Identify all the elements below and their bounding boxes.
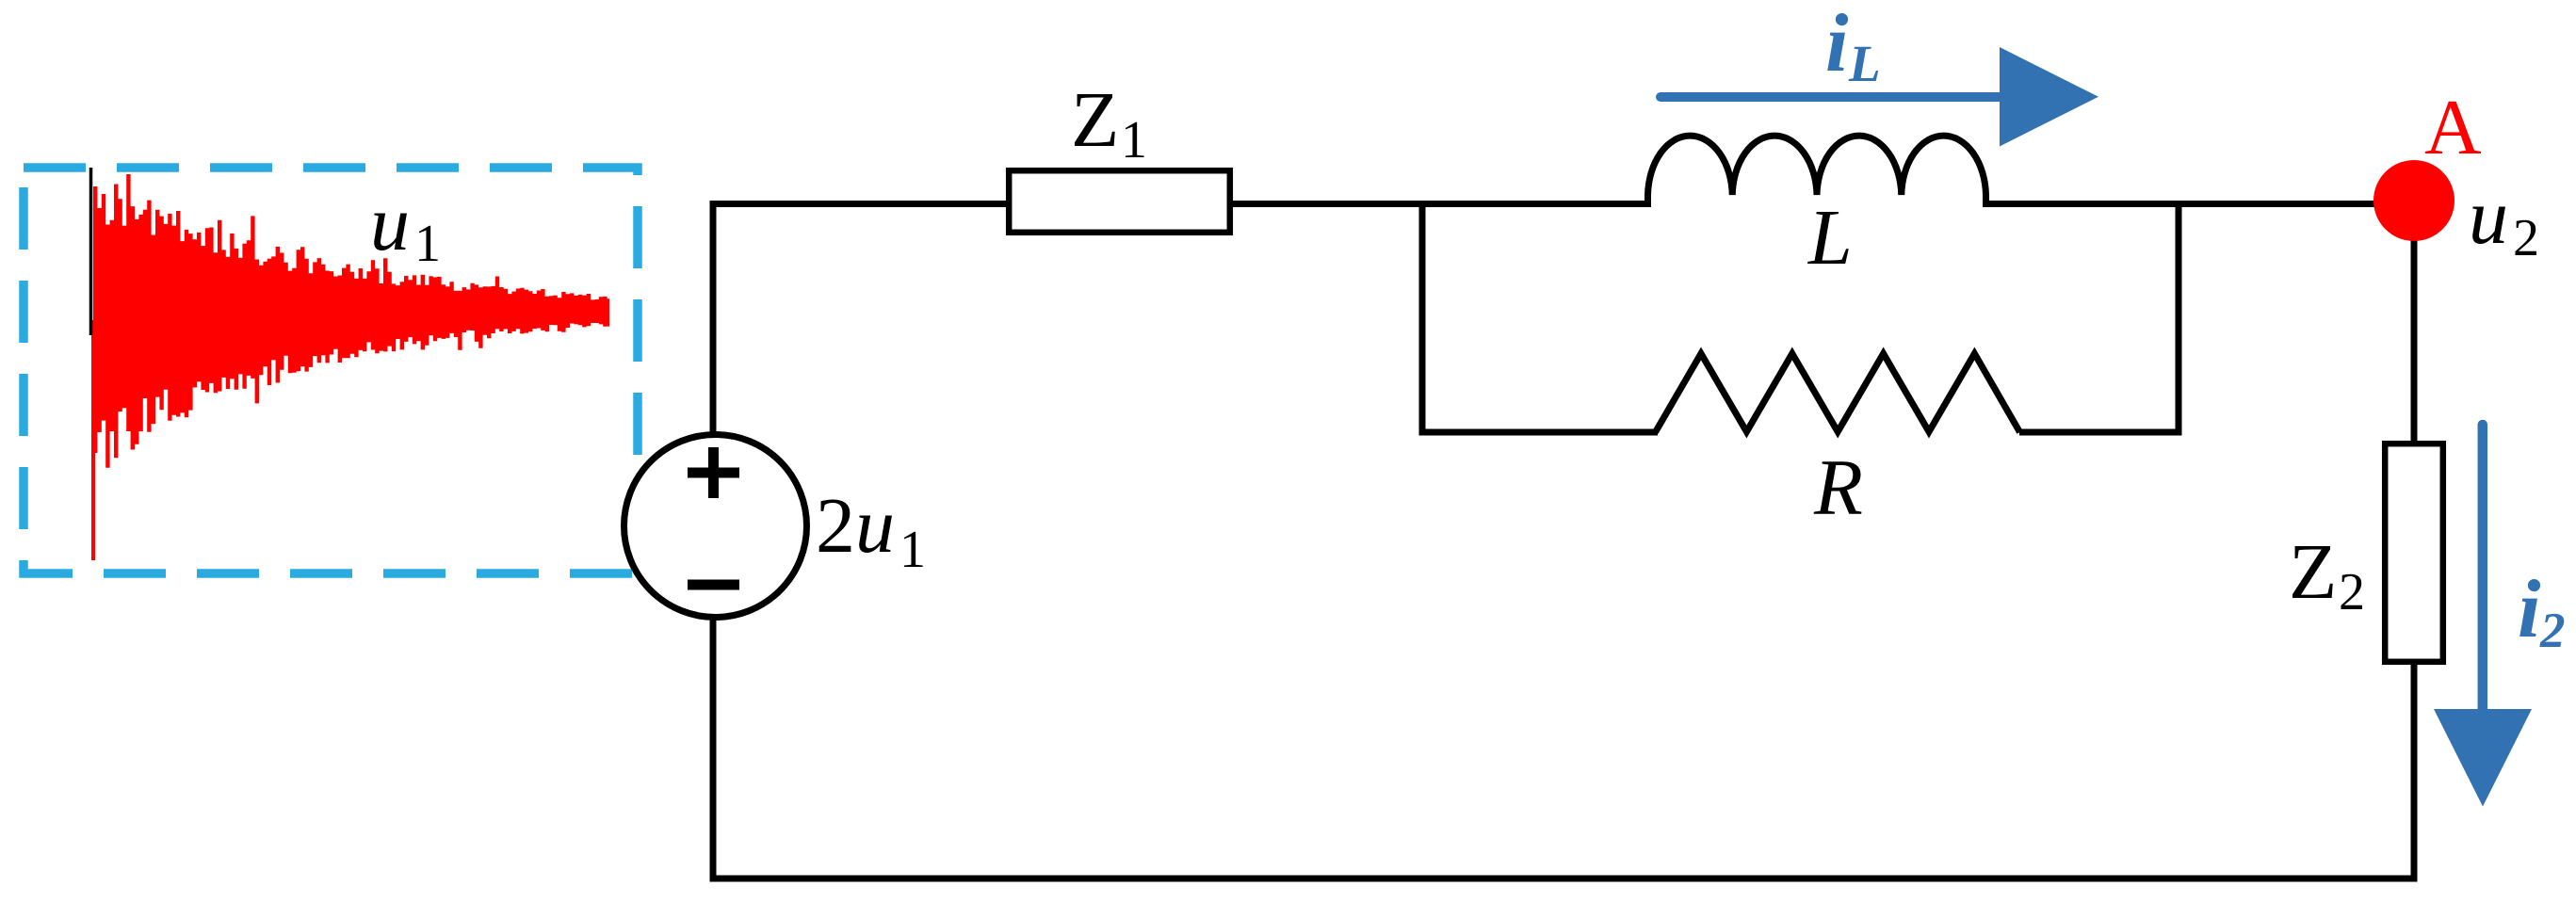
waveform initial spike xyxy=(91,320,95,560)
wire R branch bottom left xyxy=(1419,429,1659,436)
inductor L xyxy=(1648,136,1986,207)
wire top left segment xyxy=(710,201,1010,207)
svg-text:1: 1 xyxy=(414,215,441,273)
current arrow iL xyxy=(1661,92,2004,102)
dashed source box u1 xyxy=(24,168,638,573)
voltage source 2u1 xyxy=(624,435,807,618)
minus sign xyxy=(688,580,739,590)
svg-text:2: 2 xyxy=(2339,563,2365,621)
svg-text:u: u xyxy=(370,180,410,267)
svg-text:2: 2 xyxy=(816,482,855,570)
svg-text:1: 1 xyxy=(899,521,926,579)
svg-text:L: L xyxy=(1807,194,1853,282)
wire source bottom vertical xyxy=(710,614,717,882)
wire bottom xyxy=(710,876,2418,882)
wire top-left vertical xyxy=(710,201,717,435)
current arrow i2 xyxy=(2478,425,2488,716)
svg-text:u: u xyxy=(855,482,895,570)
svg-text:Z: Z xyxy=(2289,528,2337,616)
svg-text:1: 1 xyxy=(1121,111,1147,169)
svg-text:A: A xyxy=(2424,84,2482,171)
waveform u1 signal xyxy=(93,174,609,468)
plus sign xyxy=(688,447,739,498)
wire R branch bottom right xyxy=(2019,429,2182,436)
node A xyxy=(2373,160,2454,241)
svg-text:u: u xyxy=(2469,173,2508,261)
waveform axis line xyxy=(89,168,93,335)
impedance Z2 xyxy=(2385,443,2443,662)
svg-text:i: i xyxy=(2518,564,2541,655)
wire Z2 to bottom xyxy=(2411,662,2418,882)
svg-text:Z: Z xyxy=(1071,76,1119,164)
svg-text:i: i xyxy=(1825,0,1849,89)
wire Z1 to coil xyxy=(1230,201,1648,207)
resistor R xyxy=(1656,354,2020,433)
wire coil to node A xyxy=(1985,201,2414,207)
svg-text:L: L xyxy=(1848,35,1881,92)
node: parallel left junction vertical wire xyxy=(1419,201,1426,436)
wire parallel right vertical xyxy=(2176,201,2182,436)
svg-text:2: 2 xyxy=(2513,209,2539,267)
impedance Z1 xyxy=(1009,170,1230,233)
svg-text:R: R xyxy=(1813,443,1863,532)
wire node A down to Z2 xyxy=(2411,201,2418,443)
svg-text:2: 2 xyxy=(2539,604,2566,658)
